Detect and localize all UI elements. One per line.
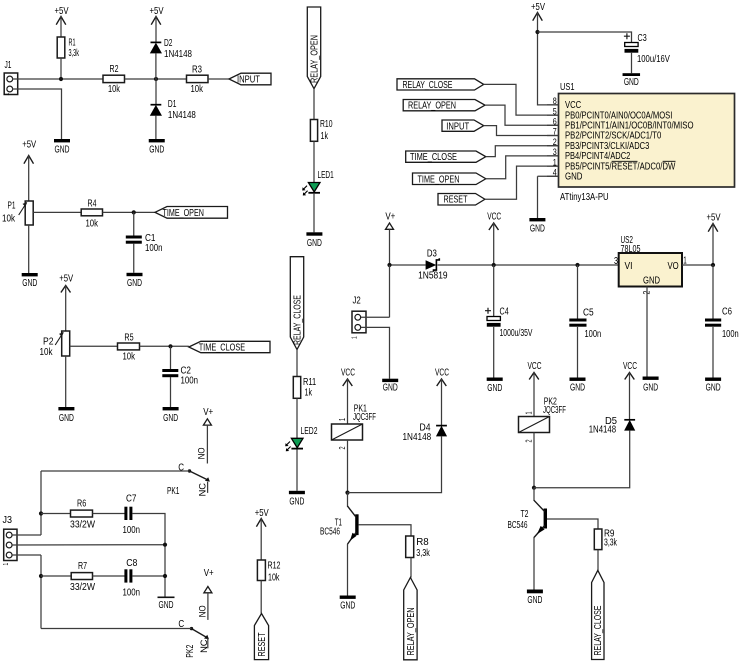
- svg-text:VO: VO: [667, 260, 678, 271]
- svg-text:TIME_CLOSE: TIME_CLOSE: [199, 341, 245, 353]
- svg-text:RELAY_CLOSE: RELAY_CLOSE: [592, 605, 604, 655]
- svg-text:1k: 1k: [321, 130, 329, 142]
- svg-text:2: 2: [553, 137, 557, 147]
- wire: [40, 555, 42, 629]
- wire: [486, 146, 559, 157]
- connector J3: [3, 514, 18, 565]
- svg-text:1: 1: [683, 254, 687, 266]
- power V+ (input): [385, 211, 395, 265]
- ground (J2): [382, 379, 398, 393]
- node junction: [532, 486, 536, 490]
- power +5V (P2): [59, 272, 74, 331]
- svg-text:RELAY_CLOSE: RELAY_CLOSE: [291, 295, 303, 345]
- svg-text:3: 3: [553, 147, 557, 157]
- net label RELAY_CLOSE (vertical): [290, 257, 303, 350]
- svg-text:1: 1: [4, 562, 11, 565]
- svg-text:GND: GND: [289, 495, 304, 507]
- svg-text:PK2: PK2: [184, 645, 196, 658]
- svg-text:LED2: LED2: [301, 425, 318, 437]
- ground (US2): [643, 377, 659, 393]
- svg-text:100n: 100n: [722, 328, 739, 339]
- node junction: [575, 263, 579, 267]
- power +5V (R12): [255, 507, 270, 560]
- svg-text:GND: GND: [149, 143, 164, 155]
- wire: [296, 450, 298, 491]
- svg-text:C8: C8: [126, 557, 137, 569]
- ground (LED1): [306, 232, 322, 248]
- LED LED2: [285, 425, 317, 452]
- resistor R4: [81, 197, 102, 229]
- ground (T1): [340, 596, 356, 611]
- resistor R5: [118, 331, 140, 361]
- svg-text:C: C: [178, 618, 184, 629]
- svg-text:1N4148: 1N4148: [403, 431, 432, 442]
- wire: [41, 470, 190, 472]
- wire: [533, 537, 535, 590]
- wire: [631, 53, 633, 73]
- resistor R10: [310, 118, 332, 142]
- wire: [132, 575, 165, 577]
- wire: [12, 534, 41, 536]
- svg-text:RELAY_OPEN: RELAY_OPEN: [405, 608, 417, 656]
- svg-text:VCC: VCC: [623, 359, 637, 371]
- wire: [389, 265, 391, 317]
- svg-text:GND: GND: [307, 236, 322, 248]
- wire: [485, 105, 559, 125]
- svg-text:3,3k: 3,3k: [416, 547, 430, 559]
- svg-text:100n: 100n: [181, 375, 198, 386]
- power VCC (rail): [487, 210, 501, 265]
- wire: [361, 327, 390, 378]
- resistor R9: [594, 528, 617, 550]
- svg-text:100n: 100n: [585, 328, 602, 339]
- node junction: [39, 511, 43, 515]
- wire: [40, 471, 42, 535]
- svg-text:PB5/PCINT5/RESET/ADC0/DW: PB5/PCINT5/RESET/ADC0/DW: [565, 160, 676, 171]
- ground (P1): [22, 273, 38, 288]
- wire: [93, 513, 125, 515]
- ground (T2): [527, 590, 543, 606]
- diode D5: [589, 416, 635, 435]
- resistor R12: [257, 559, 280, 583]
- power +5V (US1): [531, 1, 558, 105]
- svg-text:RELAY_OPEN: RELAY_OPEN: [308, 35, 320, 83]
- wire: [485, 166, 559, 199]
- wire: [296, 350, 298, 377]
- wire: [206, 425, 208, 463]
- svg-text:R5: R5: [124, 331, 133, 343]
- capacitor C3: [624, 32, 671, 65]
- wire: [537, 176, 539, 218]
- power VCC (PK1): [341, 366, 355, 424]
- svg-text:RESET: RESET: [444, 193, 468, 205]
- wire: [60, 58, 62, 79]
- ground (C5): [570, 378, 586, 394]
- wire: [133, 243, 135, 273]
- svg-text:GND: GND: [570, 381, 585, 393]
- svg-text:V+: V+: [203, 406, 213, 417]
- wire: [361, 316, 390, 318]
- wire: [547, 519, 598, 529]
- diode D3 1N5819: [418, 247, 447, 280]
- wire: [438, 264, 619, 266]
- net label TIME_CLOSE (mcu): [406, 151, 486, 162]
- svg-text:2: 2: [339, 446, 347, 449]
- svg-text:R4: R4: [88, 197, 97, 209]
- wire: [410, 558, 412, 578]
- svg-text:33/2W: 33/2W: [70, 519, 95, 531]
- svg-text:NO: NO: [196, 447, 207, 459]
- svg-text:GND: GND: [59, 411, 74, 423]
- svg-text:BC546: BC546: [320, 525, 340, 537]
- svg-text:GND: GND: [487, 381, 502, 393]
- wire: [70, 345, 118, 347]
- svg-text:D1: D1: [168, 97, 177, 109]
- svg-text:GND: GND: [159, 599, 174, 611]
- svg-text:RELAY_CLOSE: RELAY_CLOSE: [403, 79, 453, 91]
- wire: [41, 628, 192, 630]
- relay contact PK2: [178, 605, 210, 658]
- wire: [132, 514, 165, 597]
- svg-text:V+: V+: [204, 567, 214, 578]
- svg-text:ATtiny13A-PU: ATtiny13A-PU: [560, 191, 609, 202]
- svg-text:100n: 100n: [145, 242, 162, 253]
- ground (C6): [705, 378, 721, 394]
- capacitor C4: [485, 305, 533, 338]
- svg-text:1000u/35V: 1000u/35V: [500, 327, 533, 339]
- ground (snubber): [158, 597, 175, 611]
- svg-text:1N4148: 1N4148: [589, 424, 616, 435]
- voltage regulator US2 78L05: [614, 233, 687, 294]
- net label INPUT: [229, 73, 271, 85]
- svg-text:100n: 100n: [122, 524, 139, 535]
- svg-text:VCC: VCC: [435, 366, 449, 378]
- wire: [484, 126, 559, 136]
- wire: [348, 436, 442, 493]
- node junction: [59, 77, 63, 81]
- wire: [484, 84, 559, 115]
- resistor R2: [103, 63, 125, 95]
- wire: [125, 78, 187, 80]
- svg-text:C7: C7: [126, 493, 136, 504]
- svg-text:GND: GND: [22, 277, 37, 289]
- svg-text:R12: R12: [268, 559, 281, 571]
- diode D1: [151, 97, 196, 120]
- svg-text:+5V: +5V: [707, 211, 722, 222]
- wire: [170, 377, 172, 407]
- wire: [538, 175, 559, 177]
- wire: [347, 544, 349, 596]
- wire: [493, 327, 495, 378]
- wire: [33, 211, 81, 213]
- net label RESET (mcu): [438, 193, 485, 205]
- wire: [207, 593, 209, 620]
- wire: [577, 327, 579, 378]
- svg-text:NC: NC: [197, 483, 208, 497]
- wire: [12, 544, 165, 546]
- svg-text:GND: GND: [55, 143, 70, 155]
- relay coil PK2 JQC3FF: [519, 395, 566, 442]
- capacitor C2: [162, 365, 198, 386]
- svg-text:33/2W: 33/2W: [70, 581, 95, 593]
- svg-text:10k: 10k: [2, 213, 15, 224]
- svg-text:J3: J3: [3, 514, 12, 526]
- resistor R11: [293, 376, 316, 398]
- svg-text:JQC3FF: JQC3FF: [353, 410, 376, 422]
- svg-text:2: 2: [526, 439, 534, 442]
- svg-text:1: 1: [526, 411, 534, 414]
- svg-text:RESET: RESET: [256, 632, 268, 656]
- svg-text:3: 3: [614, 255, 618, 267]
- wire: [682, 264, 713, 266]
- svg-text:BC546: BC546: [508, 518, 528, 530]
- capacitor C6: [705, 306, 739, 340]
- capacitor C5: [569, 307, 601, 340]
- svg-text:1k: 1k: [305, 386, 313, 398]
- net label TIME_CLOSE: [189, 341, 270, 353]
- svg-text:GND: GND: [383, 381, 398, 393]
- svg-text:NO: NO: [197, 605, 208, 617]
- svg-text:C6: C6: [722, 306, 732, 317]
- svg-text:US1: US1: [560, 81, 574, 92]
- svg-text:LED1: LED1: [318, 168, 334, 180]
- wire: [493, 265, 495, 316]
- svg-text:TIME_OPEN: TIME_OPEN: [418, 173, 460, 185]
- net label RESET (bottom): [254, 614, 268, 660]
- svg-text:GND: GND: [706, 381, 721, 393]
- svg-text:1N4148: 1N4148: [168, 109, 196, 120]
- svg-text:GND: GND: [527, 594, 542, 606]
- wire: [577, 265, 579, 319]
- wire: [712, 327, 714, 378]
- svg-text:1N4148: 1N4148: [164, 48, 192, 59]
- node junction: [535, 30, 539, 34]
- svg-text:D3: D3: [427, 247, 437, 258]
- power +5V (R1): [55, 5, 70, 37]
- capacitor C7: [122, 493, 139, 536]
- power +5V (US2 out): [707, 211, 722, 265]
- wire: [296, 398, 298, 438]
- wire: [170, 346, 172, 369]
- net label RELAY_OPEN (bottom): [404, 578, 417, 660]
- relay contact PK1: [167, 447, 210, 496]
- svg-text:10k: 10k: [40, 346, 53, 357]
- svg-text:NC: NC: [199, 639, 210, 653]
- wire: [28, 225, 30, 273]
- node junction: [345, 491, 349, 495]
- svg-text:+5V: +5V: [255, 507, 270, 518]
- wire: [390, 264, 426, 266]
- wire: [646, 287, 648, 377]
- node junction: [492, 263, 496, 267]
- node junction: [39, 574, 43, 578]
- svg-text:J1: J1: [5, 58, 12, 70]
- svg-text:TIME_CLOSE: TIME_CLOSE: [410, 151, 457, 162]
- svg-text:1: 1: [553, 158, 557, 168]
- svg-text:R3: R3: [192, 63, 202, 74]
- wire: [155, 79, 157, 104]
- svg-text:R2: R2: [110, 63, 119, 75]
- wire: [313, 194, 315, 233]
- transistor T1 BC546: [320, 506, 359, 544]
- svg-text:6: 6: [553, 117, 557, 127]
- svg-text:8: 8: [553, 96, 557, 106]
- ground (US1): [529, 218, 545, 234]
- svg-text:C5: C5: [583, 307, 594, 318]
- svg-text:+5V: +5V: [55, 5, 70, 16]
- node junction: [163, 543, 167, 547]
- wire: [533, 488, 535, 501]
- svg-text:GND: GND: [127, 277, 142, 289]
- node junction: [711, 263, 715, 267]
- net label TIME_OPEN (mcu): [413, 173, 486, 185]
- svg-text:100n: 100n: [122, 586, 139, 597]
- node junction: [132, 210, 136, 214]
- wire: [313, 89, 315, 120]
- svg-text:INPUT: INPUT: [237, 73, 260, 84]
- svg-text:V+: V+: [385, 211, 395, 222]
- wire: [103, 211, 156, 213]
- LED LED1: [302, 168, 334, 195]
- svg-text:JQC3FF: JQC3FF: [543, 403, 566, 415]
- wire: [12, 89, 62, 139]
- power VCC (PK2): [528, 359, 542, 416]
- svg-text:PK1: PK1: [167, 484, 180, 496]
- svg-text:10k: 10k: [268, 571, 280, 583]
- wire: [12, 554, 41, 556]
- wire: [347, 493, 349, 507]
- svg-text:GND: GND: [340, 599, 355, 611]
- svg-text:C4: C4: [500, 305, 509, 317]
- svg-text:C3: C3: [638, 32, 647, 44]
- svg-text:VI: VI: [625, 259, 633, 271]
- wire: [41, 575, 71, 577]
- power VCC (D4): [435, 366, 449, 425]
- power V+ (PK2 NO): [204, 567, 214, 593]
- node junction: [163, 574, 167, 578]
- node junction: [154, 77, 158, 81]
- wire: [534, 430, 630, 488]
- wire: [93, 575, 125, 577]
- wire: [533, 433, 535, 488]
- resistor R3: [187, 63, 209, 94]
- svg-text:10k: 10k: [108, 83, 120, 94]
- svg-text:10k: 10k: [85, 217, 98, 228]
- ground (C3): [623, 73, 641, 87]
- wire: [12, 78, 103, 80]
- connector J2: [352, 294, 366, 339]
- svg-text:1: 1: [352, 336, 359, 339]
- svg-text:+5V: +5V: [22, 138, 37, 149]
- wire: [155, 53, 157, 79]
- connector J1: [4, 58, 18, 95]
- net label TIME_OPEN: [155, 207, 228, 219]
- power VCC (D5): [623, 359, 637, 419]
- svg-text:10k: 10k: [122, 350, 135, 361]
- transistor T2 BC546: [508, 500, 547, 537]
- svg-text:GND: GND: [643, 274, 660, 285]
- svg-text:R10: R10: [320, 118, 333, 130]
- svg-text:RELAY_OPEN: RELAY_OPEN: [408, 99, 456, 111]
- capacitor C1: [126, 232, 163, 253]
- relay coil PK1 JQC3FF: [332, 402, 376, 449]
- power +5V (P1): [22, 138, 37, 201]
- wire: [313, 141, 315, 182]
- svg-text:VCC: VCC: [528, 359, 542, 371]
- ground (J1): [54, 139, 70, 155]
- wire: [712, 265, 714, 319]
- wire: [486, 156, 559, 179]
- wire: [65, 356, 67, 407]
- ground (LED2): [289, 491, 305, 507]
- power +5V (D2): [150, 5, 165, 42]
- svg-text:7: 7: [553, 127, 557, 137]
- svg-text:VCC: VCC: [487, 210, 501, 222]
- resistor R1: [57, 37, 79, 59]
- svg-text:3,3k: 3,3k: [604, 536, 617, 548]
- net label RELAY_CLOSE: [397, 79, 484, 91]
- ground (P2): [58, 407, 74, 423]
- resistor R7: [70, 560, 95, 593]
- wire: [347, 440, 349, 493]
- wire: [597, 550, 599, 571]
- svg-text:+5V: +5V: [59, 272, 74, 283]
- svg-text:D2: D2: [164, 36, 173, 48]
- resistor R6: [70, 497, 95, 530]
- wire: [133, 212, 135, 235]
- op-amp U1 MCU US1 ATtiny13A: [547, 81, 735, 202]
- svg-text:GND: GND: [565, 171, 583, 182]
- svg-text:R6: R6: [77, 497, 86, 509]
- svg-text:3,3k: 3,3k: [69, 47, 80, 58]
- svg-text:R7: R7: [78, 560, 87, 572]
- net label INPUT (mcu): [442, 120, 484, 132]
- node junction: [168, 344, 172, 348]
- resistor R8: [406, 536, 431, 558]
- net label RELAY_CLOSE (bottom): [592, 570, 604, 659]
- wire: [538, 32, 632, 42]
- potentiometer P2: [40, 331, 70, 357]
- ground (C1): [127, 273, 143, 289]
- svg-text:GND: GND: [643, 381, 658, 393]
- ground (C2): [163, 407, 179, 423]
- diode D4: [403, 422, 447, 442]
- svg-text:+5V: +5V: [531, 1, 546, 12]
- svg-text:10k: 10k: [190, 83, 203, 94]
- net label RELAY_OPEN: [403, 99, 485, 111]
- svg-text:1N5819: 1N5819: [418, 269, 447, 281]
- svg-text:GND: GND: [624, 76, 639, 88]
- svg-text:+5V: +5V: [150, 5, 165, 16]
- svg-text:VCC: VCC: [341, 366, 355, 378]
- wire: [140, 345, 189, 347]
- svg-text:1: 1: [339, 418, 347, 421]
- svg-text:100u/16V: 100u/16V: [637, 53, 671, 64]
- svg-text:GND: GND: [163, 411, 178, 423]
- net label RELAY_OPEN (vertical): [307, 7, 320, 89]
- capacitor C8: [122, 557, 139, 597]
- svg-text:5: 5: [553, 107, 557, 117]
- power V+ (PK1 NO): [203, 406, 213, 425]
- node junction: [387, 263, 391, 267]
- wire: [359, 525, 411, 536]
- potentiometer P1: [2, 199, 33, 225]
- diode D2: [151, 36, 192, 59]
- svg-text:TIME_OPEN: TIME_OPEN: [163, 207, 204, 219]
- wire: [260, 581, 262, 614]
- svg-text:P1: P1: [8, 199, 16, 211]
- svg-text:J2: J2: [353, 294, 361, 305]
